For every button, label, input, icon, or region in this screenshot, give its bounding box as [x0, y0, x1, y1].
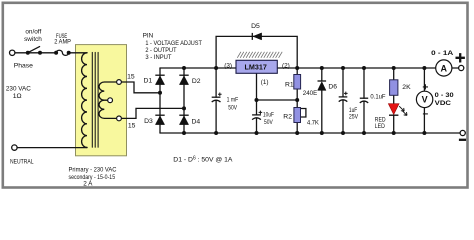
svg-text:R1: R1: [285, 81, 294, 88]
svg-text:LM317: LM317: [245, 63, 267, 72]
svg-text:2 AMP: 2 AMP: [54, 39, 71, 46]
svg-text:A: A: [441, 63, 448, 73]
svg-text:4.7K: 4.7K: [307, 119, 319, 126]
svg-text:D5: D5: [251, 23, 260, 30]
svg-text:V: V: [422, 95, 428, 105]
svg-text:(1): (1): [261, 79, 269, 86]
svg-text:0.1uF: 0.1uF: [370, 94, 385, 101]
svg-text:230 VAC: 230 VAC: [6, 86, 31, 93]
svg-text:D2: D2: [192, 78, 201, 85]
svg-text:D6: D6: [328, 84, 337, 91]
svg-text:0 - 1A: 0 - 1A: [431, 50, 453, 57]
svg-text:50V: 50V: [228, 104, 237, 111]
svg-text:Primary - 230 VAC: Primary - 230 VAC: [69, 166, 117, 173]
svg-text:on/off: on/off: [25, 29, 41, 36]
svg-text:D1: D1: [144, 77, 153, 84]
svg-text:240E: 240E: [303, 90, 318, 97]
svg-text:3 - INPUT: 3 - INPUT: [145, 54, 171, 61]
svg-text:D3: D3: [144, 118, 153, 125]
svg-text:Phase: Phase: [14, 63, 33, 70]
svg-text:15: 15: [127, 73, 135, 80]
svg-text:D1 - D6 : 50V @ 1A: D1 - D6 : 50V @ 1A: [173, 156, 233, 164]
svg-text:VDC: VDC: [435, 100, 452, 107]
svg-text:0 - 30: 0 - 30: [435, 92, 454, 99]
svg-text:NEUTRAL: NEUTRAL: [10, 159, 34, 166]
svg-text:switch: switch: [24, 36, 42, 43]
svg-text:15: 15: [128, 122, 136, 129]
svg-text:1 mF: 1 mF: [227, 97, 239, 104]
svg-text:LED: LED: [375, 123, 385, 130]
svg-text:PIN: PIN: [143, 33, 154, 40]
svg-text:2 A: 2 A: [83, 181, 93, 188]
svg-text:2K: 2K: [402, 84, 411, 91]
svg-text:10uF: 10uF: [263, 111, 274, 118]
svg-text:1 - VOLTAGE ADJUST: 1 - VOLTAGE ADJUST: [145, 40, 202, 47]
svg-text:D4: D4: [192, 119, 201, 126]
svg-text:50V: 50V: [264, 119, 273, 126]
svg-text:R2: R2: [283, 114, 292, 121]
svg-text:(3): (3): [224, 63, 232, 70]
svg-text:(2): (2): [282, 63, 290, 70]
svg-text:1Ω: 1Ω: [13, 93, 22, 100]
svg-text:25V: 25V: [349, 114, 359, 121]
